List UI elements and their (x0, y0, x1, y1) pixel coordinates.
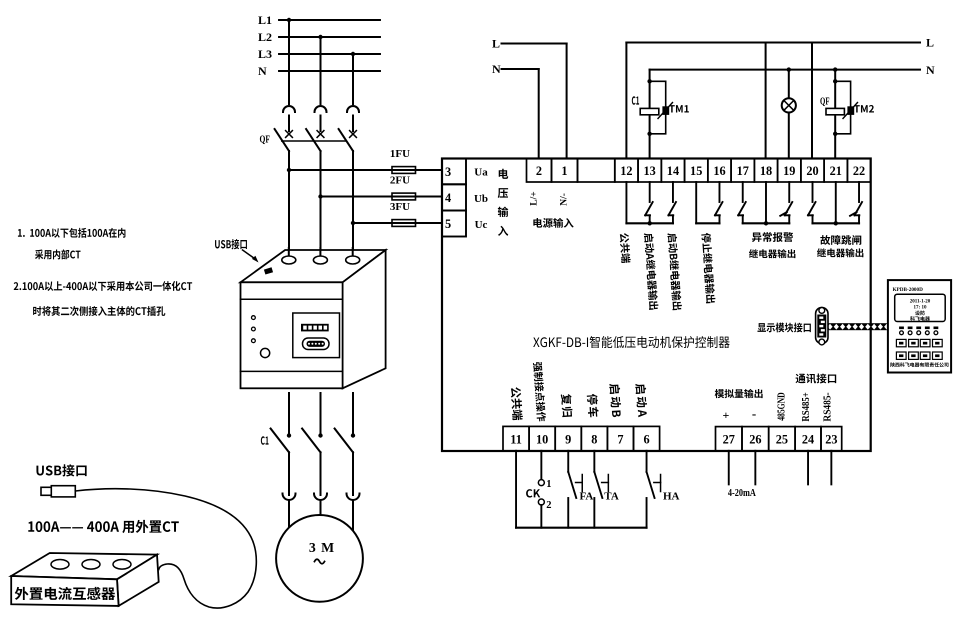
svg-text:-: - (752, 406, 756, 421)
svg-text:16: 16 (713, 164, 725, 178)
svg-text:8: 8 (591, 432, 597, 446)
svg-text:19: 19 (783, 164, 795, 178)
svg-text:RS485-: RS485- (822, 392, 833, 421)
svg-text:25: 25 (776, 432, 788, 446)
svg-text:2011-1-20: 2011-1-20 (910, 300, 931, 305)
svg-text:QF: QF (820, 97, 830, 108)
svg-text:17: 10: 17: 10 (914, 306, 927, 311)
svg-text:3FU: 3FU (390, 201, 410, 213)
svg-text:N: N (492, 62, 501, 76)
svg-text:1: 1 (561, 164, 567, 178)
svg-text:12: 12 (620, 164, 632, 178)
svg-text:L2: L2 (258, 30, 272, 44)
svg-text:26: 26 (749, 432, 761, 446)
svg-text:13: 13 (644, 164, 656, 178)
svg-text:4: 4 (445, 191, 451, 205)
svg-text:2FU: 2FU (390, 175, 410, 187)
svg-text:27: 27 (723, 432, 735, 446)
svg-text:485GND: 485GND (777, 392, 788, 421)
svg-text:RS485+: RS485+ (801, 392, 812, 422)
svg-text:7: 7 (617, 432, 623, 446)
svg-text:24: 24 (802, 432, 814, 446)
svg-text:4-20mA: 4-20mA (728, 488, 756, 499)
svg-text:11: 11 (510, 432, 522, 446)
svg-text:KPDB-2000D: KPDB-2000D (893, 287, 924, 293)
svg-text:TA: TA (604, 491, 619, 503)
svg-text:14: 14 (667, 164, 679, 178)
svg-text:Ua: Ua (474, 167, 488, 179)
svg-text:L1: L1 (258, 13, 272, 27)
svg-text:3: 3 (445, 165, 451, 179)
svg-text:15: 15 (690, 164, 702, 178)
svg-text:6: 6 (643, 432, 649, 446)
svg-text:L/+: L/+ (530, 191, 540, 205)
svg-text:L: L (492, 37, 500, 51)
svg-text:22: 22 (853, 164, 865, 178)
svg-text:18: 18 (760, 164, 772, 178)
svg-text:Ub: Ub (474, 193, 488, 205)
svg-text:QF: QF (260, 134, 271, 146)
svg-text:20: 20 (806, 164, 818, 178)
svg-text:N: N (258, 64, 267, 78)
svg-text:3 M: 3 M (309, 540, 335, 555)
svg-text:5: 5 (445, 217, 451, 231)
svg-text:9: 9 (565, 432, 571, 446)
svg-text:2: 2 (546, 500, 551, 511)
svg-text:21: 21 (830, 164, 842, 178)
svg-text:Uc: Uc (475, 219, 488, 231)
svg-text:N/-: N/- (560, 193, 570, 206)
svg-text:23: 23 (825, 432, 837, 446)
svg-text:FA: FA (580, 491, 594, 503)
svg-text:N: N (926, 63, 935, 77)
svg-text:L3: L3 (258, 47, 272, 61)
svg-text:2: 2 (536, 164, 542, 178)
svg-text:1FU: 1FU (390, 148, 410, 160)
svg-text:L: L (926, 36, 934, 50)
svg-text:17: 17 (737, 164, 749, 178)
svg-text:1: 1 (546, 479, 551, 490)
svg-text:+: + (722, 408, 729, 422)
svg-text:10: 10 (536, 432, 548, 446)
svg-text:HA: HA (663, 491, 680, 503)
